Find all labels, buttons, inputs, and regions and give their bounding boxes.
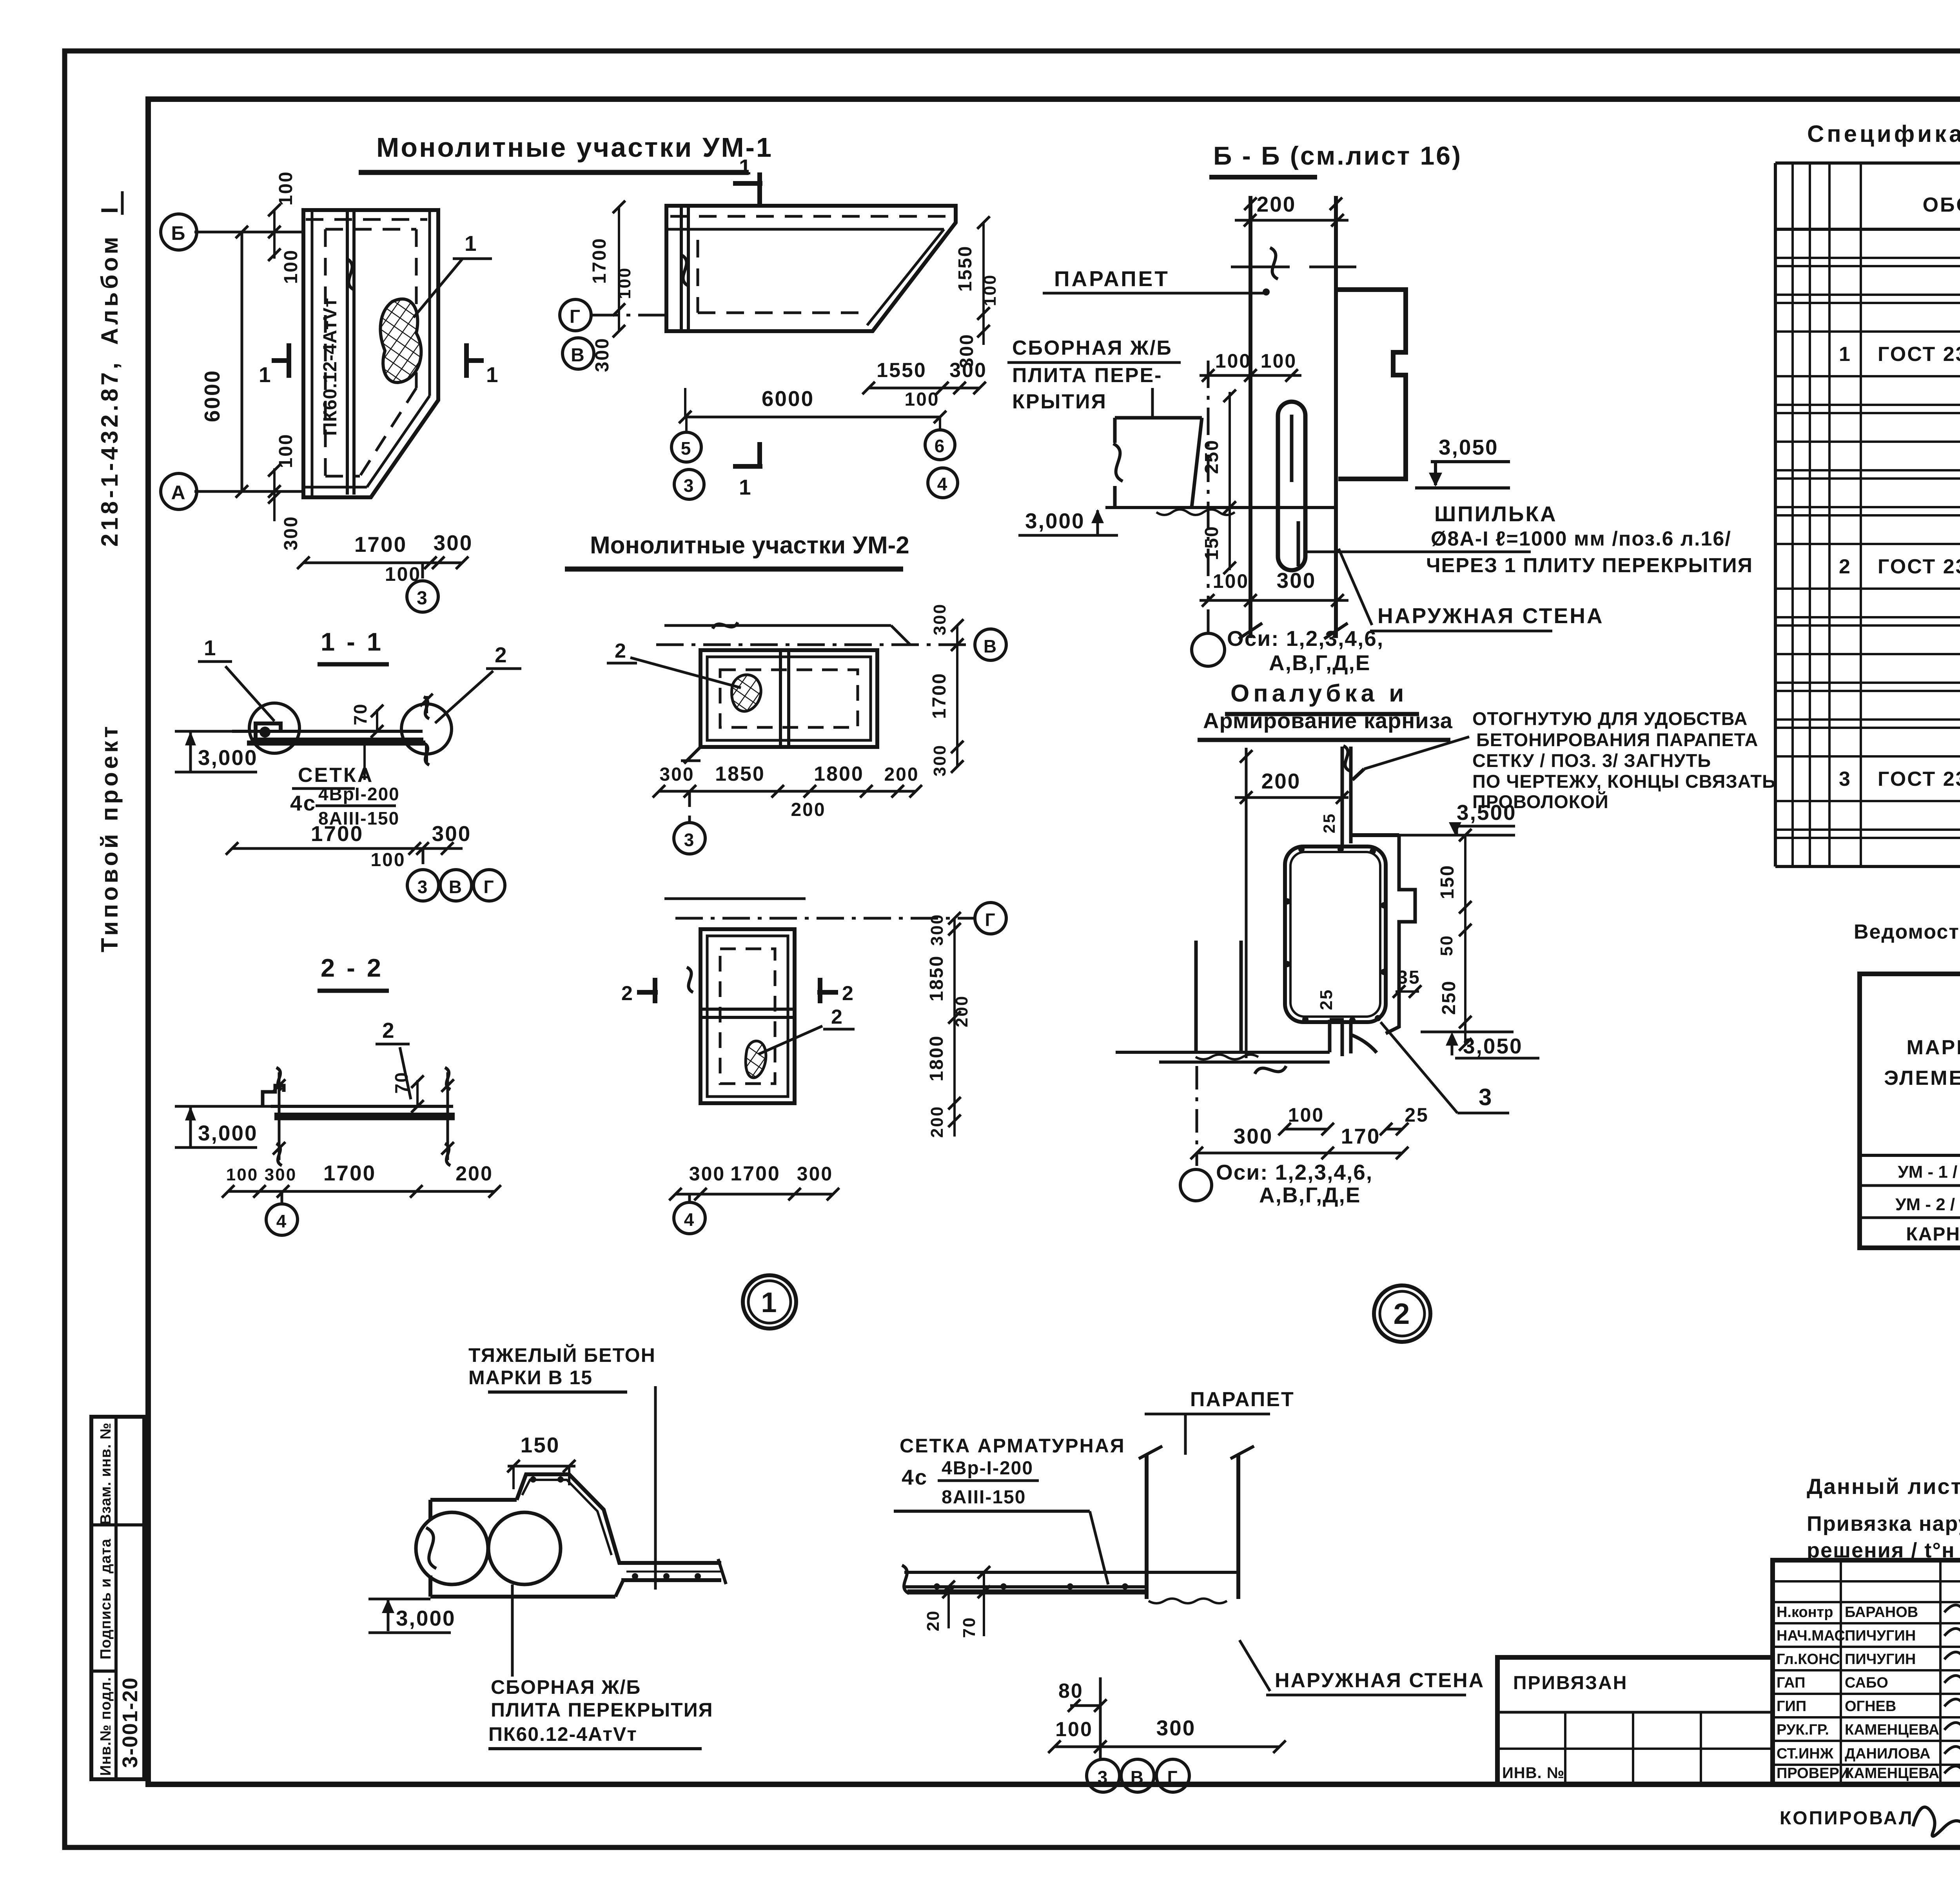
svg-text:100: 100	[1213, 570, 1249, 592]
svg-text:100: 100	[226, 1165, 258, 1184]
svg-text:КОПИРОВАЛ: КОПИРОВАЛ	[1780, 1808, 1914, 1829]
svg-text:3,000: 3,000	[198, 1121, 258, 1145]
svg-text:300: 300	[797, 1163, 833, 1185]
svg-text:1550: 1550	[877, 359, 927, 382]
svg-text:ПРОВЕРИ: ПРОВЕРИ	[1777, 1765, 1850, 1782]
svg-text:2: 2	[1394, 1297, 1411, 1330]
svg-text:Б: Б	[171, 222, 187, 244]
svg-text:100: 100	[615, 267, 634, 299]
svg-text:БЕТОНИРОВАНИЯ ПАРАПЕТА: БЕТОНИРОВАНИЯ ПАРАПЕТА	[1476, 729, 1758, 750]
svg-text:1700: 1700	[929, 673, 950, 719]
svg-text:2: 2	[842, 982, 855, 1005]
svg-text:2: 2	[382, 1018, 396, 1042]
svg-text:БАРАНОВ: БАРАНОВ	[1845, 1604, 1918, 1621]
svg-text:КРЫТИЯ: КРЫТИЯ	[1012, 390, 1107, 413]
svg-text:В: В	[984, 636, 998, 656]
svg-text:1: 1	[739, 475, 752, 499]
svg-text:300: 300	[265, 1165, 297, 1184]
svg-text:2: 2	[1839, 555, 1851, 578]
svg-text:35: 35	[1397, 967, 1420, 988]
svg-text:КАМЕНЦЕВА: КАМЕНЦЕВА	[1845, 1722, 1939, 1738]
svg-text:Н.контр: Н.контр	[1777, 1604, 1833, 1621]
svg-text:100: 100	[276, 170, 296, 205]
svg-text:Подпись и дата: Подпись и дата	[98, 1539, 114, 1659]
svg-text:МАРКИ В 15: МАРКИ В 15	[468, 1367, 593, 1389]
svg-text:СЕТКА АРМАТУРНАЯ: СЕТКА АРМАТУРНАЯ	[900, 1435, 1125, 1457]
svg-text:Взам. инв. №: Взам. инв. №	[98, 1422, 114, 1525]
svg-text:3,000: 3,000	[396, 1606, 456, 1630]
svg-text:300: 300	[281, 515, 301, 550]
svg-text:300: 300	[592, 337, 613, 372]
svg-text:200: 200	[952, 995, 971, 1027]
svg-text:Г: Г	[483, 877, 495, 897]
svg-text:Армирование карниза: Армирование карниза	[1203, 708, 1453, 733]
svg-text:25: 25	[1320, 813, 1338, 834]
svg-text:150: 150	[521, 1433, 560, 1457]
svg-text:6: 6	[935, 436, 946, 456]
svg-text:Г: Г	[570, 306, 581, 327]
svg-text:А,В,Г,Д,Е: А,В,Г,Д,Е	[1269, 651, 1370, 675]
svg-text:Гл.КОНС: Гл.КОНС	[1777, 1651, 1840, 1668]
svg-text:ПК60.12-4АтVт: ПК60.12-4АтVт	[488, 1723, 637, 1745]
svg-text:Данный лист см. совместно: Данный лист см. совместно с листом 16.	[1807, 1474, 1960, 1499]
svg-text:Опалубка и: Опалубка и	[1230, 680, 1408, 707]
svg-text:200: 200	[456, 1162, 493, 1185]
svg-text:РУК.ГР.: РУК.ГР.	[1777, 1722, 1829, 1738]
svg-text:4: 4	[937, 474, 949, 494]
svg-text:В: В	[449, 877, 463, 897]
svg-text:150: 150	[1201, 525, 1222, 560]
svg-text:КАРНИЗ: КАРНИЗ	[1906, 1224, 1960, 1245]
svg-text:ПРИВЯЗАН: ПРИВЯЗАН	[1513, 1673, 1628, 1693]
svg-text:Спецификация монолитных учас: Спецификация монолитных участков УМ-1, У…	[1807, 121, 1960, 147]
svg-text:Привязка наружных стен /3: Привязка наружных стен /300 мм/ дана для…	[1807, 1512, 1960, 1535]
svg-text:3,050: 3,050	[1439, 435, 1499, 459]
svg-text:100: 100	[904, 389, 939, 410]
svg-text:1850: 1850	[926, 955, 947, 1002]
svg-text:ПАРАПЕТ: ПАРАПЕТ	[1054, 266, 1170, 291]
svg-text:70: 70	[350, 703, 370, 725]
svg-text:300: 300	[434, 531, 473, 555]
svg-text:СЕТКУ / ПОЗ. 3/ ЗАГНУТЬ: СЕТКУ / ПОЗ. 3/ ЗАГНУТЬ	[1472, 750, 1711, 771]
svg-text:300: 300	[689, 1163, 725, 1185]
svg-text:200: 200	[1257, 192, 1296, 216]
svg-text:250: 250	[1201, 439, 1222, 474]
svg-text:1: 1	[761, 1287, 778, 1318]
svg-text:Ведомость расхода стали: Ведомость расхода стали на элемент, кг	[1854, 921, 1960, 943]
svg-text:Оси: 1,2,3,4,6,: Оси: 1,2,3,4,6,	[1216, 1160, 1373, 1184]
svg-text:2: 2	[495, 643, 508, 667]
svg-text:50: 50	[1437, 935, 1456, 956]
svg-text:250: 250	[1439, 980, 1459, 1015]
svg-text:В: В	[571, 345, 586, 366]
svg-text:100: 100	[1288, 1104, 1324, 1126]
svg-text:Г: Г	[1167, 1767, 1178, 1787]
svg-text:ДАНИЛОВА: ДАНИЛОВА	[1845, 1746, 1930, 1762]
svg-text:4: 4	[276, 1211, 288, 1231]
svg-text:100: 100	[281, 249, 301, 284]
svg-text:КАМЕНЦЕВА: КАМЕНЦЕВА	[1845, 1765, 1939, 1782]
svg-text:5: 5	[681, 438, 692, 459]
svg-text:1: 1	[486, 363, 499, 387]
svg-text:НАРУЖНАЯ СТЕНА: НАРУЖНАЯ СТЕНА	[1275, 1669, 1485, 1692]
svg-text:3: 3	[684, 475, 695, 496]
svg-text:СЕТКА: СЕТКА	[298, 764, 374, 787]
svg-text:70: 70	[960, 1617, 979, 1638]
svg-text:25: 25	[1317, 989, 1336, 1010]
svg-text:170: 170	[1341, 1124, 1381, 1148]
svg-text:300: 300	[1234, 1124, 1273, 1148]
svg-text:100: 100	[1215, 350, 1251, 372]
svg-text:100: 100	[276, 433, 296, 468]
svg-text:8АIII-150: 8АIII-150	[942, 1487, 1026, 1508]
svg-text:300: 300	[949, 359, 987, 382]
svg-text:СБОРНАЯ Ж/Б: СБОРНАЯ Ж/Б	[491, 1676, 641, 1698]
svg-text:4ВрI-200: 4ВрI-200	[318, 784, 400, 804]
svg-text:Альбом: Альбом	[96, 234, 123, 345]
svg-text:I: I	[96, 204, 123, 214]
svg-text:3: 3	[1479, 1084, 1493, 1110]
svg-text:НАЧ.МАС.: НАЧ.МАС.	[1777, 1628, 1849, 1644]
svg-text:6000: 6000	[762, 386, 814, 411]
svg-text:6000: 6000	[200, 370, 224, 422]
svg-text:3: 3	[417, 877, 429, 897]
svg-text:ШПИЛЬКА: ШПИЛЬКА	[1434, 502, 1557, 526]
svg-text:70: 70	[391, 1071, 412, 1093]
svg-text:4Вр-I-200: 4Вр-I-200	[942, 1458, 1033, 1479]
svg-text:200: 200	[884, 764, 919, 785]
svg-text:1: 1	[204, 636, 217, 660]
svg-text:1: 1	[1839, 343, 1851, 366]
svg-text:НАРУЖНАЯ СТЕНА: НАРУЖНАЯ СТЕНА	[1377, 604, 1604, 628]
svg-text:СТ.ИНЖ: СТ.ИНЖ	[1777, 1746, 1834, 1762]
svg-text:1700: 1700	[323, 1161, 376, 1185]
svg-text:3: 3	[1839, 768, 1851, 790]
svg-text:1 - 1: 1 - 1	[321, 627, 383, 656]
svg-text:ГОСТ 23279-85: ГОСТ 23279-85	[1878, 555, 1960, 578]
svg-text:1700: 1700	[730, 1162, 780, 1185]
svg-text:1700: 1700	[354, 532, 407, 557]
svg-text:ПИЧУГИН: ПИЧУГИН	[1845, 1628, 1916, 1644]
svg-text:2: 2	[621, 982, 634, 1005]
svg-text:200: 200	[791, 799, 826, 820]
svg-text:1700: 1700	[311, 821, 363, 846]
svg-text:3-001-20: 3-001-20	[118, 1677, 142, 1768]
svg-text:ЧЕРЕЗ 1 ПЛИТУ ПЕРЕКРЫТИЯ: ЧЕРЕЗ 1 ПЛИТУ ПЕРЕКРЫТИЯ	[1426, 554, 1753, 577]
svg-text:А: А	[171, 482, 186, 504]
svg-text:3,000: 3,000	[1025, 509, 1085, 533]
svg-text:2: 2	[831, 1006, 844, 1028]
svg-text:300: 300	[930, 603, 949, 635]
svg-text:ЭЛЕМЕНТА: ЭЛЕМЕНТА	[1884, 1067, 1960, 1089]
svg-text:Монолитные участки УМ-2: Монолитные участки УМ-2	[590, 532, 909, 559]
svg-text:4с: 4с	[902, 1465, 928, 1489]
svg-text:150: 150	[1437, 864, 1458, 899]
svg-text:Типовой проект: Типовой проект	[96, 723, 123, 952]
svg-text:3,500: 3,500	[1457, 800, 1517, 825]
svg-text:ОГНЕВ: ОГНЕВ	[1845, 1698, 1896, 1715]
svg-text:300: 300	[930, 744, 949, 776]
svg-text:3,000: 3,000	[198, 745, 258, 770]
svg-text:ГАП: ГАП	[1777, 1675, 1805, 1691]
svg-text:УМ - 2 / шт. 2/: УМ - 2 / шт. 2/	[1895, 1195, 1960, 1214]
svg-text:ОБОЗНАЧЕНИЕ: ОБОЗНАЧЕНИЕ	[1923, 194, 1960, 216]
svg-text:1800: 1800	[814, 763, 864, 785]
svg-text:3,050: 3,050	[1463, 1034, 1523, 1058]
svg-text:300: 300	[432, 821, 472, 846]
svg-text:4: 4	[684, 1209, 695, 1230]
svg-text:100: 100	[980, 274, 1000, 306]
svg-text:1550: 1550	[955, 245, 976, 292]
svg-text:Монолитные участки УМ-1: Монолитные участки УМ-1	[376, 132, 773, 163]
svg-text:В: В	[1131, 1767, 1145, 1787]
svg-text:4с: 4с	[290, 791, 316, 815]
svg-text:20: 20	[924, 1610, 943, 1632]
svg-text:3: 3	[417, 588, 428, 609]
svg-text:ПЛИТА ПЕРЕКРЫТИЯ: ПЛИТА ПЕРЕКРЫТИЯ	[491, 1699, 713, 1721]
svg-text:Инв.№ подл.: Инв.№ подл.	[98, 1677, 114, 1776]
svg-text:100: 100	[1261, 350, 1297, 372]
svg-text:100: 100	[370, 850, 405, 870]
svg-text:1: 1	[465, 231, 478, 256]
svg-text:ГИП: ГИП	[1777, 1698, 1806, 1715]
svg-text:УМ - 1 / шт.3/: УМ - 1 / шт.3/	[1898, 1162, 1960, 1182]
svg-text:ОТОГНУТУЮ ДЛЯ УДОБСТВА: ОТОГНУТУЮ ДЛЯ УДОБСТВА	[1472, 708, 1748, 729]
svg-text:МАРКА: МАРКА	[1907, 1036, 1960, 1059]
svg-text:300: 300	[659, 764, 694, 785]
svg-text:1700: 1700	[589, 237, 610, 284]
svg-text:3: 3	[684, 830, 695, 850]
svg-text:Б - Б (см.лист 16): Б - Б (см.лист 16)	[1213, 141, 1462, 170]
svg-text:200: 200	[927, 1106, 947, 1138]
svg-text:А,В,Г,Д,Е: А,В,Г,Д,Е	[1259, 1183, 1361, 1207]
svg-text:3: 3	[1098, 1767, 1109, 1787]
svg-text:ПО ЧЕРТЕЖУ, КОНЦЫ СВЯЗАТЬ: ПО ЧЕРТЕЖУ, КОНЦЫ СВЯЗАТЬ	[1472, 771, 1776, 792]
svg-text:2: 2	[615, 640, 627, 662]
svg-text:1800: 1800	[926, 1035, 947, 1082]
svg-text:ИНВ. №: ИНВ. №	[1502, 1764, 1564, 1782]
svg-text:1850: 1850	[715, 763, 765, 785]
svg-text:ГОСТ 23279 -85: ГОСТ 23279 -85	[1878, 343, 1960, 366]
svg-text:СБОРНАЯ Ж/Б: СБОРНАЯ Ж/Б	[1012, 337, 1172, 359]
svg-text:300: 300	[1277, 568, 1316, 593]
svg-text:Ø8А-I ℓ=1000 мм /поз.6 л.16/: Ø8А-I ℓ=1000 мм /поз.6 л.16/	[1431, 528, 1731, 550]
svg-text:ПАРАПЕТ: ПАРАПЕТ	[1190, 1388, 1295, 1411]
svg-text:300: 300	[1156, 1716, 1196, 1740]
svg-text:ТЯЖЕЛЫЙ БЕТОН: ТЯЖЕЛЫЙ БЕТОН	[468, 1344, 656, 1366]
svg-text:ПИЧУГИН: ПИЧУГИН	[1845, 1651, 1916, 1668]
svg-text:218-1-432.87,: 218-1-432.87,	[96, 359, 123, 547]
svg-text:ПК60.12-4АтVт: ПК60.12-4АтVт	[320, 297, 341, 436]
svg-text:Г: Г	[985, 910, 996, 930]
svg-text:2 - 2: 2 - 2	[321, 954, 383, 982]
svg-text:ГОСТ 23279-85: ГОСТ 23279-85	[1878, 768, 1960, 790]
svg-text:ПЛИТА ПЕРЕ-: ПЛИТА ПЕРЕ-	[1012, 364, 1162, 387]
svg-text:1: 1	[259, 363, 272, 387]
svg-text:200: 200	[1261, 769, 1301, 793]
svg-text:300: 300	[927, 914, 947, 946]
svg-text:100: 100	[1055, 1718, 1093, 1741]
svg-text:САБО: САБО	[1845, 1675, 1888, 1691]
svg-text:1: 1	[739, 155, 752, 179]
